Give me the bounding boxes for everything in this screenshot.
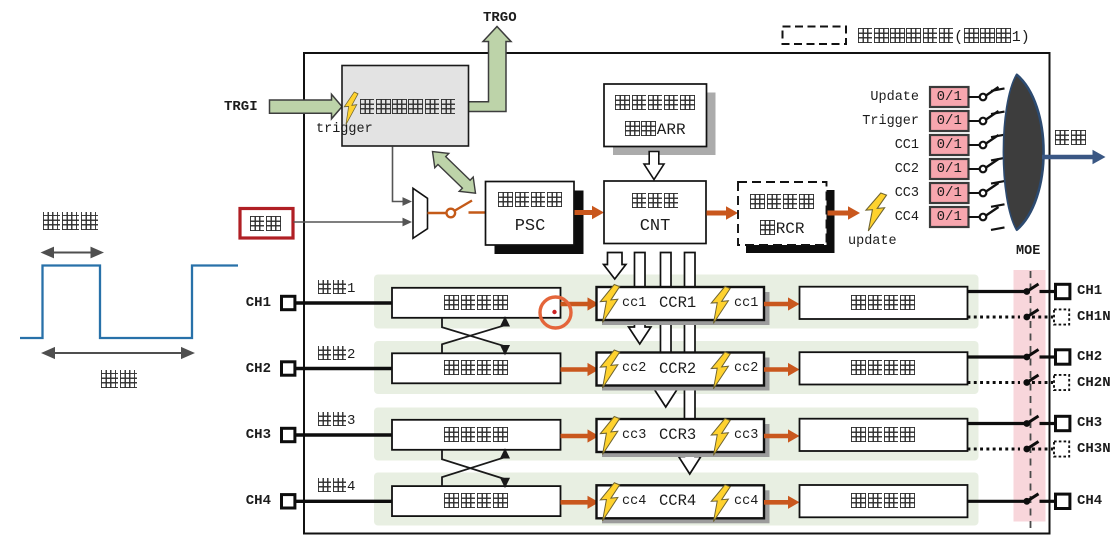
period double arrow: [44, 348, 193, 357]
green band channel 2: [374, 341, 979, 394]
capture/compare register CCR2 box: [597, 353, 765, 386]
label CH1 output: [1077, 284, 1102, 298]
crossover arrows channels 1-2: [442, 318, 509, 353]
flag box 0/1 row Trigger: [930, 111, 969, 131]
orange arrow CCR4 to output compare: [764, 500, 789, 505]
output compare box channel 1: [800, 287, 968, 319]
white outline arrow CNT to CCR4: [679, 253, 701, 475]
label cc2 left: [622, 362, 646, 376]
label CNT: [607, 218, 703, 235]
capture/compare register CCR1 box: [597, 287, 765, 320]
prescaler PSC box: [486, 182, 575, 246]
MOE switch dot CH4: [1023, 498, 1030, 505]
TRGI green arrow: [270, 94, 343, 119]
OR gate input dash 2: [991, 112, 1005, 115]
output wire to pin CH3: [1040, 422, 1056, 425]
dotted wire to pin CH2N: [1032, 381, 1053, 384]
MOE switch dot CH1: [1023, 288, 1030, 295]
input capture box channel 4: [392, 486, 561, 516]
crossover arrows channels 3-4: [442, 450, 509, 486]
flag box 0/1 row Update: [930, 87, 969, 107]
switch lever CC4: [986, 207, 999, 216]
text 时钟: [249, 216, 281, 233]
orange wire to PSC: [469, 211, 486, 213]
text 重复计数: [741, 194, 823, 211]
label CCR1: [659, 296, 696, 312]
flag box 0/1 row CC4: [930, 207, 969, 227]
red annotation dot: [552, 310, 556, 314]
switch lever Update: [986, 87, 999, 96]
bolt right in CCR1: [711, 287, 730, 324]
wire flag to switch CC3: [969, 192, 980, 194]
orange wire mux to switch: [428, 212, 447, 214]
flag value 0/1 CC2: [930, 162, 969, 176]
white outline arrow ARR to CNT: [644, 152, 664, 180]
MOE switch dot CH2N: [1023, 379, 1030, 386]
orange arrow CCR3 to output compare: [764, 434, 789, 439]
switch circle CC4: [980, 214, 987, 221]
label TRGI: [224, 100, 258, 114]
output compare box channel 4: [800, 485, 968, 517]
switch lever CC3: [986, 183, 999, 192]
switch lever: [455, 201, 472, 211]
repetition counter RCR dashed box: [738, 182, 827, 245]
PWM waveform: [20, 266, 238, 339]
MOE switch dot CH3: [1023, 420, 1030, 427]
MOE switch lever CH3: [1027, 416, 1039, 424]
flag value 0/1 CC1: [930, 138, 969, 152]
OR gate input dash 6: [991, 204, 1005, 207]
capture/compare register CCR4 box: [597, 485, 765, 518]
output wire solid CH2: [968, 355, 1028, 358]
label cc3 left: [622, 429, 646, 443]
flag box 0/1 row CC1: [930, 135, 969, 155]
text 输出比较 ch1: [799, 295, 967, 312]
label PSC: [489, 218, 571, 235]
output wire solid CH4: [968, 500, 1028, 503]
text 从模式控制器: [359, 99, 456, 116]
text 输出比较 ch4: [799, 493, 967, 510]
label update: [848, 235, 897, 249]
auto-reload register ARR box: [604, 84, 707, 147]
text 预分频器: [489, 192, 571, 209]
text 输入捕获 ch1: [392, 295, 560, 312]
MOE switch lever CH1: [1027, 284, 1039, 292]
mux trapezoid: [413, 188, 428, 238]
CCR1 shadow: [602, 292, 770, 325]
ARR shadow: [613, 93, 716, 156]
label Update: [839, 91, 919, 105]
OR gate input dash 1: [991, 88, 1005, 91]
label CH2 input: [245, 362, 271, 376]
green band channel 3: [374, 408, 979, 461]
wire flag to switch CC1: [969, 144, 980, 146]
channel 3 input pin square CH3: [282, 428, 295, 441]
update event bolt: [866, 193, 887, 231]
label 通道1: [317, 280, 355, 296]
red annotation circle: [540, 297, 571, 328]
label CH3 input: [245, 428, 271, 442]
switch circle CC1: [980, 142, 987, 149]
bidirectional green arrow slave<->prescaler: [433, 152, 476, 194]
input capture box channel 3: [392, 420, 561, 450]
orange arrow capture to CCR2: [561, 367, 589, 372]
orange arrow capture to CCR4: [561, 500, 589, 505]
counter CNT box: [604, 181, 706, 244]
label 通道4: [317, 478, 355, 494]
channel 3 input wire: [295, 433, 392, 436]
channel 2 input pin square CH2: [282, 362, 295, 375]
label Trigger: [839, 115, 919, 129]
MOE switch dot CH2: [1023, 354, 1030, 361]
label CC4: [839, 211, 919, 225]
wire flag to switch CC2: [969, 168, 980, 170]
MOE switch lever CH4: [1027, 494, 1039, 502]
label CC2: [839, 163, 919, 177]
label 通道2: [317, 346, 355, 362]
output pin square CH2: [1056, 350, 1070, 364]
output wire dotted CH3N: [968, 448, 1021, 451]
OR gate right edge highlight: [1017, 75, 1044, 231]
label CH1N output: [1077, 310, 1110, 324]
pink MOE strip: [1014, 270, 1046, 522]
green band channel 1: [374, 275, 979, 329]
output wire to pin CH2: [1040, 355, 1056, 358]
label CCR2: [659, 362, 696, 378]
OR gate input dash 5: [991, 181, 1005, 184]
channel 4 input wire: [295, 500, 392, 503]
wire clock to mux: [294, 221, 403, 223]
channel 1 input wire: [295, 301, 392, 304]
flag box 0/1 row CC2: [930, 159, 969, 179]
RCR shadow: [746, 190, 835, 253]
wire slave controller to mux: [393, 147, 403, 202]
text 中断: [1054, 130, 1086, 147]
complementary pin square CH2N: [1054, 375, 1069, 390]
MOE dashed vertical line: [1030, 271, 1032, 529]
text 输出比较 ch3: [799, 427, 967, 444]
label MOE: [1016, 245, 1040, 259]
orange arrow RCR to update event: [828, 211, 849, 216]
OR gate input dash 4: [991, 158, 1005, 161]
output pin square CH1: [1056, 284, 1070, 298]
label cc2 right: [734, 362, 758, 376]
OR gate input dash 7: [991, 227, 1005, 230]
label CH4 input: [245, 494, 271, 508]
white outline arrow CNT to CCR3: [655, 253, 677, 408]
text 周期: [100, 370, 138, 390]
switch lever CC2: [986, 159, 999, 168]
bolt right in CCR3: [711, 419, 730, 456]
label CH4 output: [1077, 494, 1102, 508]
label CCR4: [659, 494, 696, 510]
label CC1: [839, 139, 919, 153]
bolt in slave controller: [344, 92, 358, 125]
MOE switch lever CH1N: [1027, 310, 1039, 318]
channel 1 input pin square CH1: [282, 296, 295, 309]
bolt right in CCR4: [711, 485, 730, 522]
wire flag to switch CC4: [969, 216, 980, 218]
text 输出比较 ch2: [799, 360, 967, 377]
MOE switch lever CH2N: [1027, 375, 1039, 383]
label cc3 right: [734, 429, 758, 443]
text 自动重装寄: [607, 95, 703, 112]
switch circle Trigger: [980, 118, 987, 125]
switch circle CC3: [980, 190, 987, 197]
PSC shadow: [495, 191, 584, 255]
label CH2 output: [1077, 350, 1102, 364]
MOE switch dot CH1N: [1023, 314, 1030, 321]
output wire to pin CH4: [1040, 500, 1056, 503]
dotted wire to pin CH1N: [1032, 316, 1053, 319]
interrupt arrow 中断: [1042, 155, 1094, 160]
input capture box channel 1: [392, 288, 561, 318]
legend dashed box: [783, 27, 847, 45]
label trigger: [316, 123, 373, 137]
label CH3 output: [1077, 416, 1102, 430]
orange arrow PSC to CNT: [575, 210, 594, 215]
switch circle CC2: [980, 166, 987, 173]
text 器RCR: [741, 220, 823, 237]
bolt left in CCR1: [600, 285, 619, 323]
text 占空比: [42, 212, 99, 232]
TRGO green elbow arrow: [468, 27, 511, 112]
complementary pin square CH3N: [1054, 441, 1069, 456]
label cc1 left: [622, 297, 646, 311]
flag value 0/1 CC4: [930, 210, 969, 224]
orange arrow capture to CCR1: [561, 302, 589, 307]
output compare box channel 3: [800, 419, 968, 451]
duty-cycle double arrow: [43, 248, 102, 257]
CCR3 shadow: [602, 424, 770, 457]
bolt left in CCR4: [600, 483, 619, 521]
text 输入捕获 ch3: [392, 427, 560, 444]
legend text 仅高级定时器（定时器1）: [857, 28, 1030, 45]
white outline arrow CNT to CCR2: [629, 253, 651, 345]
label CH2N output: [1077, 376, 1110, 390]
output wire solid CH1: [968, 290, 1028, 293]
bolt left in CCR3: [600, 417, 619, 455]
input capture box channel 2: [392, 353, 561, 383]
switch pivot circle: [447, 209, 456, 218]
label cc4 left: [622, 495, 646, 509]
flag value 0/1 Update: [930, 90, 969, 104]
label CCR3: [659, 428, 696, 444]
dotted wire to pin CH3N: [1032, 448, 1053, 451]
switch lever Trigger: [986, 111, 999, 120]
orange arrow CCR2 to output compare: [764, 367, 789, 372]
bolt left in CCR2: [600, 350, 619, 388]
outer timer box: [304, 53, 1050, 534]
MOE switch lever CH3N: [1027, 442, 1039, 450]
output wire dotted CH2N: [968, 381, 1021, 384]
wire flag to switch Trigger: [969, 120, 980, 122]
output wire dotted CH1N: [968, 316, 1021, 319]
clock box 时钟: [240, 209, 293, 239]
output pin square CH3: [1056, 416, 1070, 430]
wire flag to switch Update: [969, 96, 980, 98]
interrupt OR gate: [1003, 75, 1043, 231]
orange arrow CNT to RCR: [707, 211, 727, 216]
capture/compare register CCR3 box: [597, 419, 765, 452]
output wire to pin CH1: [1040, 290, 1056, 293]
label 通道3: [317, 412, 355, 428]
flag value 0/1 CC3: [930, 186, 969, 200]
MOE switch dot CH3N: [1023, 446, 1030, 453]
CCR2 shadow: [602, 358, 770, 391]
text 输入捕获 ch2: [392, 360, 560, 377]
label TRGO: [483, 11, 517, 25]
switch lever CC1: [986, 135, 999, 144]
green band channel 4: [374, 473, 979, 526]
output wire solid CH3: [968, 422, 1028, 425]
flag value 0/1 Trigger: [930, 114, 969, 128]
output pin square CH4: [1056, 494, 1070, 508]
channel 2 input wire: [295, 367, 392, 370]
label CH3N output: [1077, 442, 1110, 456]
label cc4 right: [734, 495, 758, 509]
text 输入捕获 ch4: [392, 493, 560, 510]
text 计数器: [607, 193, 703, 210]
OR gate input dash 3: [991, 135, 1005, 138]
white outline arrow CNT to CCR1: [604, 253, 626, 280]
orange arrow CCR1 to output compare: [764, 302, 789, 307]
complementary pin square CH1N: [1054, 309, 1069, 324]
output compare box channel 2: [800, 352, 968, 384]
switch circle Update: [980, 94, 987, 101]
label CH1 input: [245, 296, 271, 310]
flag box 0/1 row CC3: [930, 183, 969, 203]
label cc1 right: [734, 297, 758, 311]
slave mode controller box U1: [342, 66, 469, 147]
orange arrow capture to CCR3: [561, 434, 589, 439]
text 存器ARR: [607, 121, 703, 138]
bolt right in CCR2: [711, 352, 730, 389]
channel 4 input pin square CH4: [282, 495, 295, 508]
label CC3: [839, 187, 919, 201]
CCR4 shadow: [602, 490, 770, 523]
MOE switch lever CH2: [1027, 350, 1039, 358]
